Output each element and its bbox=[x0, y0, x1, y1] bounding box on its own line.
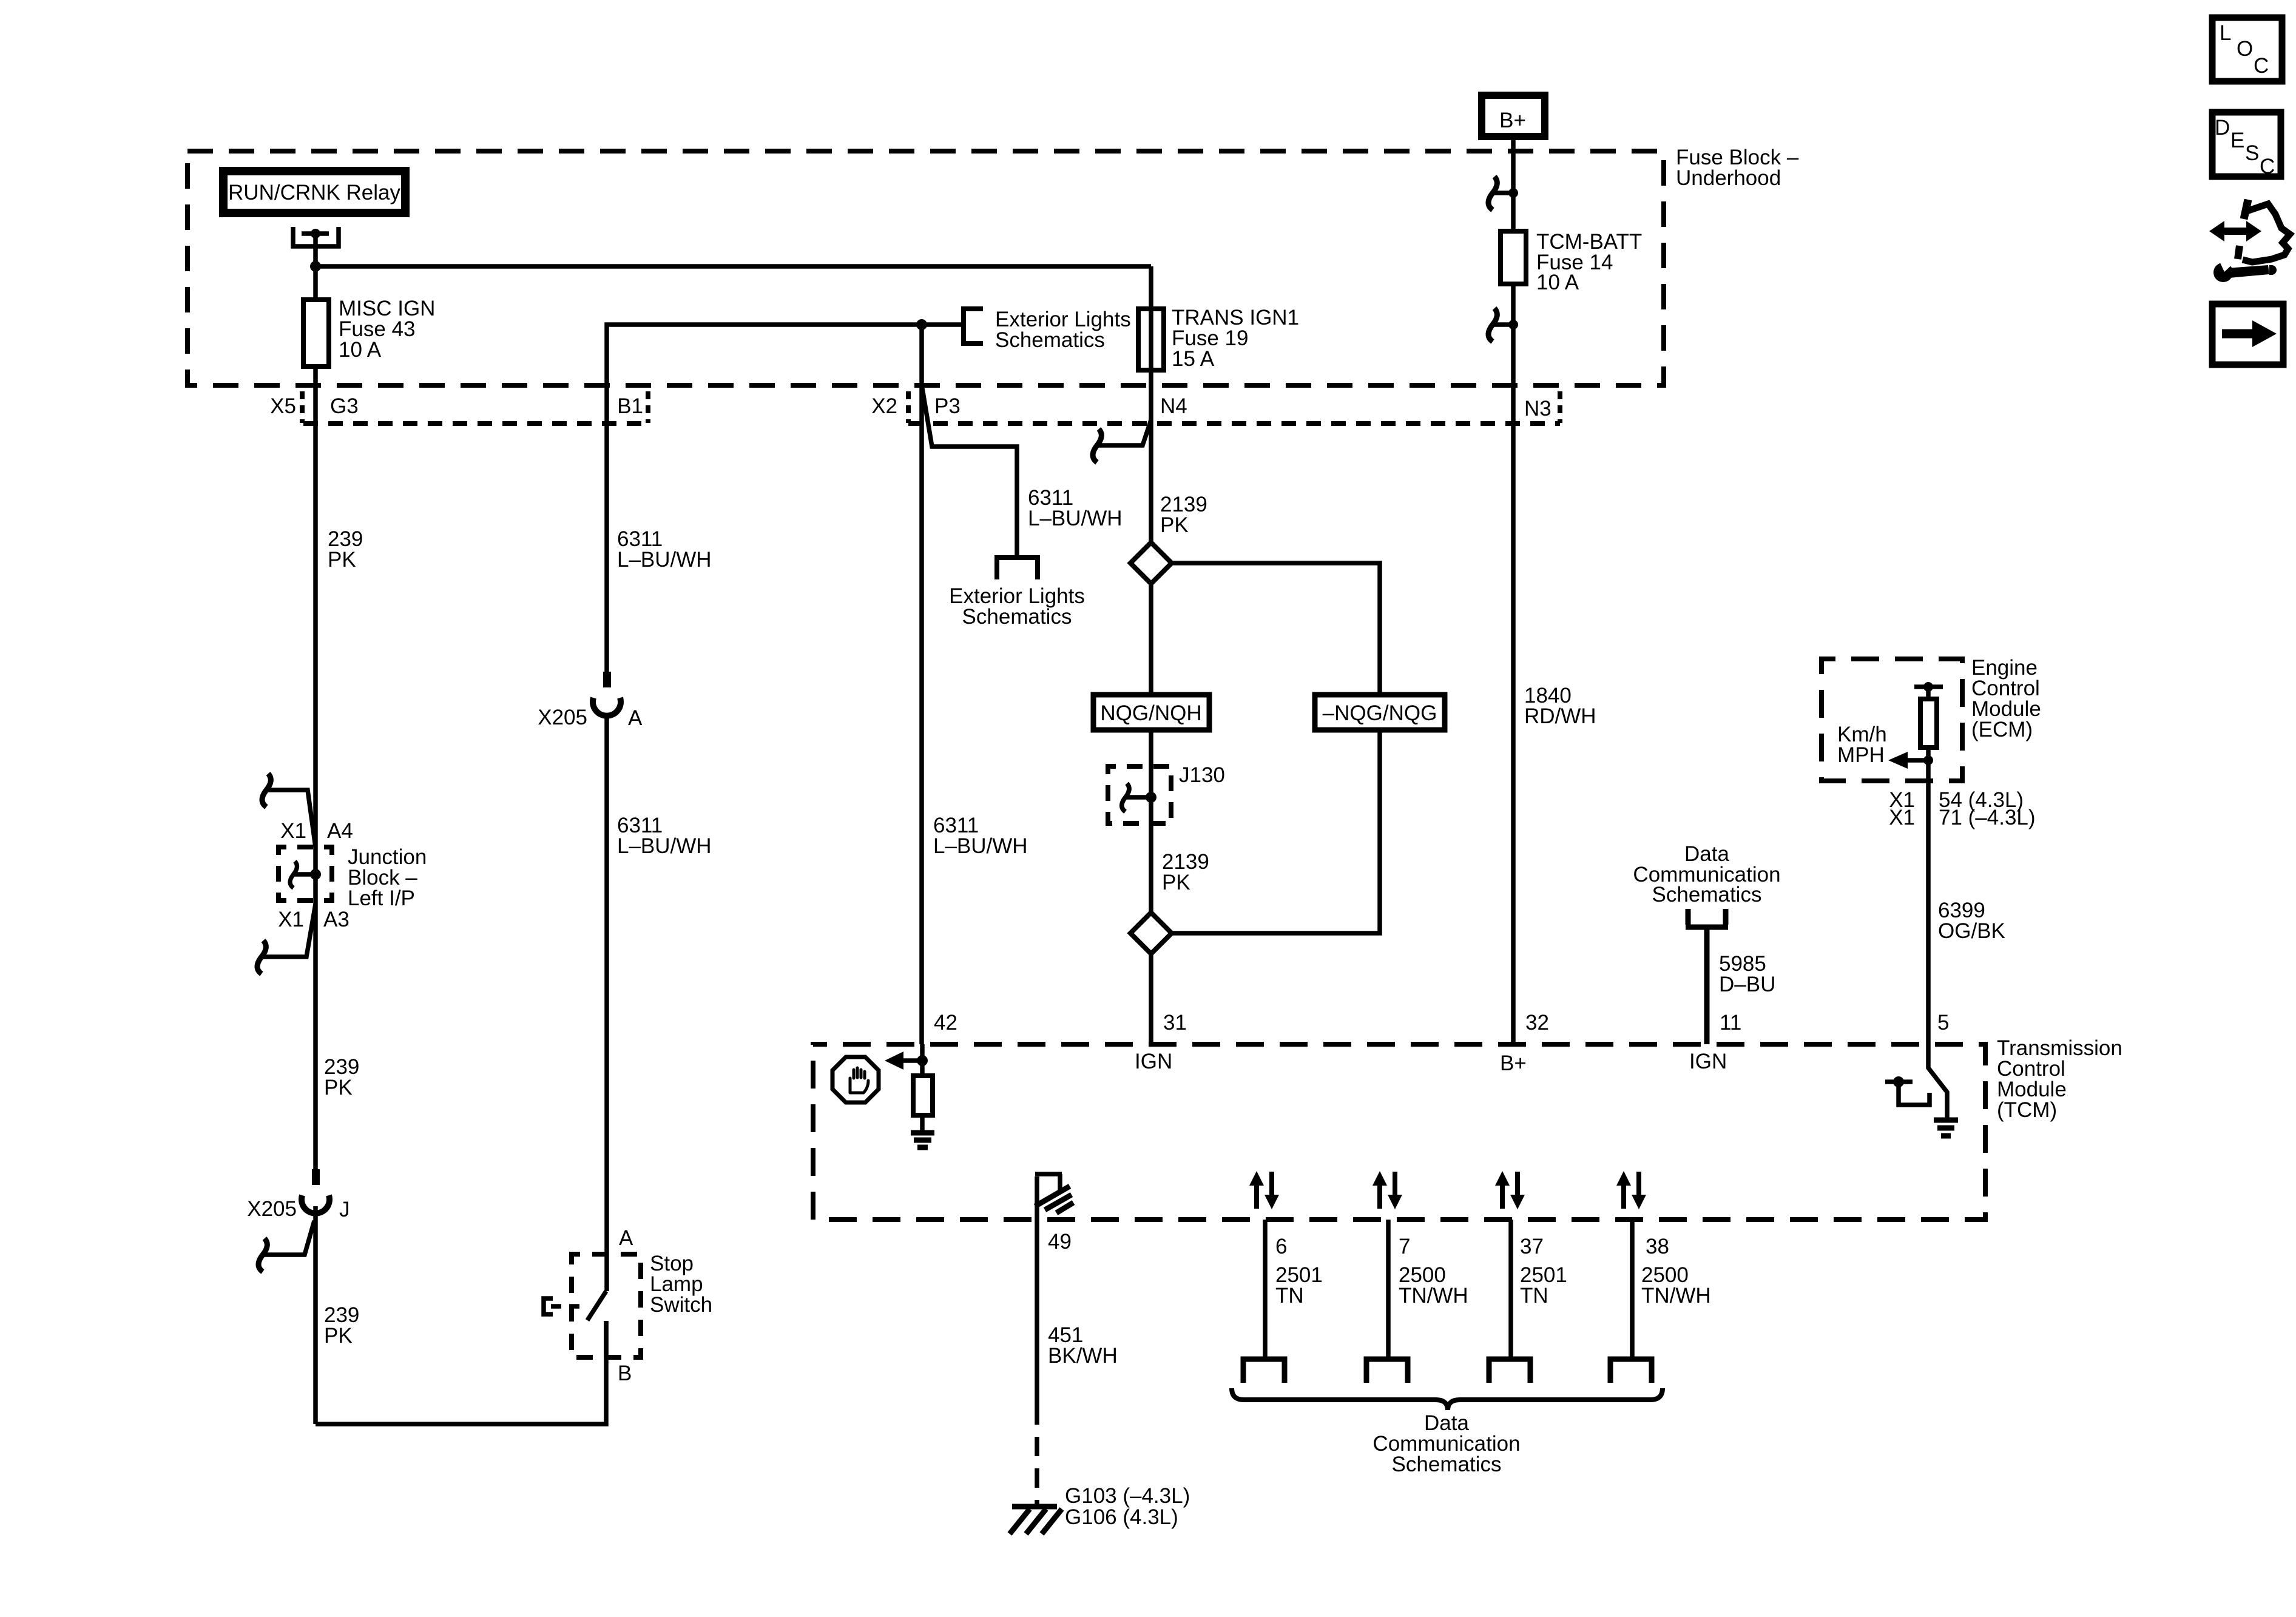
wire 6311 from splice down through P3 to TCM 42 bbox=[919, 325, 924, 1044]
wire to MISC IGN fuse bbox=[313, 266, 318, 300]
connector separator X2 bbox=[906, 391, 911, 423]
brace data communication bbox=[1232, 1388, 1663, 1410]
svg-text:NQG/NQH: NQG/NQH bbox=[1100, 701, 1201, 725]
wire 451 BK/WH dashed to ground bbox=[1035, 1425, 1039, 1507]
svg-text:42: 42 bbox=[934, 1011, 957, 1035]
break symbol A4 stub bbox=[262, 774, 271, 807]
svg-text:B1: B1 bbox=[617, 394, 643, 418]
wire relay output horizontal to TRANS IGN1 bbox=[316, 264, 1151, 269]
svg-text:IGN: IGN bbox=[1689, 1050, 1727, 1073]
junction block dashed box bbox=[279, 847, 332, 900]
fuse block underhood dashed box bbox=[187, 151, 1664, 385]
splice clip inside J130 bbox=[1125, 795, 1151, 800]
svg-text:B+: B+ bbox=[1499, 109, 1526, 132]
data link arrows pin 6 bbox=[1249, 1171, 1279, 1209]
stub at X205 J bbox=[262, 1221, 314, 1255]
wire B1 up and right to exterior lights tap bbox=[607, 325, 964, 424]
svg-text:P3: P3 bbox=[934, 394, 961, 418]
connector row X5/G3...B1 bottom dashed line bbox=[303, 421, 647, 426]
wire ECM internal down bbox=[1926, 748, 1931, 781]
svg-text:A4: A4 bbox=[327, 819, 353, 843]
svg-text:RD/WH: RD/WH bbox=[1524, 704, 1596, 728]
TCM internal switch at pin 5 bbox=[1928, 1044, 1947, 1118]
pedal linkage E bracket bbox=[544, 1298, 553, 1314]
ground G103/G106 bbox=[1012, 1504, 1057, 1510]
relay contact symbol bbox=[293, 227, 339, 246]
wire below X205 J bbox=[313, 1206, 318, 1424]
fuse MISC IGN Fuse 43 bbox=[303, 300, 329, 366]
svg-text:L: L bbox=[2220, 21, 2231, 45]
svg-text:BK/WH: BK/WH bbox=[1048, 1344, 1118, 1368]
svg-text:(ECM): (ECM) bbox=[1971, 718, 2033, 741]
svg-text:Schematics: Schematics bbox=[1392, 1453, 1502, 1476]
wire TRANS IGN1 fuse feed bbox=[1149, 266, 1153, 309]
svg-text:Schematics: Schematics bbox=[995, 328, 1105, 352]
svg-text:G3: G3 bbox=[330, 394, 359, 418]
wire bottom horizontal to stop lamp switch bbox=[316, 1321, 606, 1424]
node splice on 6311 feed bbox=[916, 319, 927, 330]
wire 2500 TN/WH pin 38 bbox=[1630, 1220, 1635, 1357]
node diamond splice upper bbox=[1130, 542, 1172, 584]
relay RUN/CRNK Relay label box bbox=[223, 171, 405, 213]
svg-text:X205: X205 bbox=[538, 706, 587, 729]
svg-text:N3: N3 bbox=[1524, 397, 1551, 420]
svg-text:38: 38 bbox=[1646, 1235, 1669, 1258]
splice J130 dashed box bbox=[1108, 766, 1171, 823]
svg-text:A3: A3 bbox=[323, 908, 349, 931]
inline connector X205 A bbox=[603, 672, 611, 687]
svg-text:B: B bbox=[618, 1362, 632, 1385]
svg-text:PK: PK bbox=[324, 1076, 353, 1099]
svg-text:–NQG/NQG: –NQG/NQG bbox=[1323, 701, 1437, 725]
svg-text:TN/WH: TN/WH bbox=[1641, 1284, 1711, 1308]
node diamond splice lower bbox=[1130, 913, 1172, 954]
svg-text:IGN: IGN bbox=[1135, 1050, 1172, 1073]
exterior lights schematic bracket lower bbox=[997, 558, 1038, 579]
option box -NQG/NQG bbox=[1315, 695, 1445, 730]
svg-text:MPH: MPH bbox=[1837, 743, 1885, 767]
svg-text:C: C bbox=[2260, 155, 2275, 178]
node arrow junction bbox=[917, 1055, 928, 1066]
svg-text:X1: X1 bbox=[278, 908, 304, 931]
svg-text:X2: X2 bbox=[871, 394, 897, 418]
svg-text:L–BU/WH: L–BU/WH bbox=[1028, 507, 1123, 530]
battery feed B+ box bbox=[1482, 95, 1545, 137]
terminal pin 6 bbox=[1243, 1359, 1285, 1383]
svg-text:E: E bbox=[2230, 129, 2244, 152]
switch B contact bbox=[604, 1321, 609, 1357]
svg-text:X1: X1 bbox=[1889, 806, 1915, 829]
wire TCM 49 internal chassis ground stub bbox=[1035, 1176, 1039, 1220]
wire B1 down to X205 A bbox=[604, 424, 609, 672]
wire X205 A to stop lamp switch bbox=[604, 715, 609, 1291]
connector separator X5 bbox=[300, 391, 305, 423]
svg-text:A: A bbox=[619, 1226, 633, 1250]
wire diamond to NQG/NQH bbox=[1149, 584, 1153, 695]
wire relay contact stem bbox=[313, 234, 318, 266]
wire 2139 from fuse down to diamond bbox=[1149, 370, 1153, 542]
arrow to hand symbol bbox=[902, 1058, 922, 1063]
icon hand with wrench bbox=[2223, 228, 2248, 235]
terminal pin 37 bbox=[1489, 1359, 1530, 1383]
svg-text:D–BU: D–BU bbox=[1719, 973, 1775, 996]
svg-text:15 A: 15 A bbox=[1172, 347, 1215, 371]
svg-text:71 (–4.3L): 71 (–4.3L) bbox=[1939, 806, 2036, 829]
svg-text:Left I/P: Left I/P bbox=[348, 886, 415, 910]
svg-text:10 A: 10 A bbox=[1536, 271, 1579, 294]
wire 2501 TN pin 6 bbox=[1263, 1220, 1268, 1357]
svg-text:X1: X1 bbox=[280, 819, 306, 843]
fuse TRANS IGN1 Fuse 19 bbox=[1138, 309, 1164, 370]
icon DESC box bbox=[2212, 112, 2281, 177]
data link arrows pin 37 bbox=[1495, 1171, 1525, 1209]
option box NQG/NQH bbox=[1093, 695, 1209, 730]
wire resistor to ground bbox=[920, 1115, 925, 1133]
data link arrows pin 7 bbox=[1373, 1171, 1402, 1209]
break symbol A3 stub bbox=[257, 940, 266, 974]
wire right branch from diamond bbox=[1172, 563, 1380, 695]
svg-text:31: 31 bbox=[1163, 1011, 1187, 1035]
junction block connector A3 stub bbox=[261, 904, 316, 957]
svg-text:G103 (–4.3L): G103 (–4.3L) bbox=[1065, 1484, 1190, 1508]
svg-text:32: 32 bbox=[1525, 1011, 1549, 1035]
svg-text:PK: PK bbox=[328, 548, 356, 572]
hand warning octagon bbox=[832, 1057, 879, 1102]
clip connector on B+ wire upper bbox=[1493, 191, 1513, 195]
svg-text:PK: PK bbox=[324, 1324, 353, 1348]
svg-text:B+: B+ bbox=[1500, 1052, 1527, 1075]
icon arrow box bbox=[2212, 304, 2283, 365]
hand glyph bbox=[850, 1068, 868, 1093]
ECM internal node bar bbox=[1914, 684, 1943, 689]
svg-text:7: 7 bbox=[1399, 1235, 1410, 1258]
inline connector X205 J bbox=[312, 1169, 320, 1185]
svg-text:J: J bbox=[339, 1198, 350, 1221]
svg-text:L–BU/WH: L–BU/WH bbox=[933, 834, 1028, 858]
svg-text:Schematics: Schematics bbox=[962, 605, 1072, 629]
arrow Km/h MPH output bbox=[1923, 755, 1933, 765]
svg-text:O: O bbox=[2237, 37, 2253, 61]
switch stop lamp dashed box bbox=[572, 1254, 641, 1357]
resistor TCM internal bbox=[913, 1076, 933, 1115]
wire N4 stub with break bbox=[1096, 420, 1151, 445]
svg-text:RUN/CRNK Relay: RUN/CRNK Relay bbox=[228, 181, 400, 204]
ground TCM internal bbox=[911, 1133, 934, 1147]
resistor ECM internal bbox=[1926, 689, 1931, 699]
junction block connector A4 stub bbox=[266, 790, 316, 847]
wire TCM-BATT fuse to TCM 32 bbox=[1511, 284, 1516, 1044]
wire NQG/NQH to J130 bbox=[1149, 730, 1153, 913]
chassis ground TCM internal icon bbox=[1035, 1174, 1062, 1190]
connector separator N3 bbox=[1558, 391, 1562, 423]
svg-text:L–BU/WH: L–BU/WH bbox=[617, 834, 712, 858]
connector row X2/P3...N4...N3 bottom dashed line bbox=[908, 421, 1560, 426]
wire 6399 ECM to TCM 5 bbox=[1926, 781, 1931, 1044]
switch blade bbox=[587, 1291, 606, 1320]
switch contact L bbox=[1893, 1076, 1904, 1087]
svg-text:X205: X205 bbox=[247, 1197, 297, 1221]
svg-text:L–BU/WH: L–BU/WH bbox=[617, 548, 712, 572]
break symbol at N4 stub bbox=[1093, 429, 1101, 462]
svg-text:OG/BK: OG/BK bbox=[1938, 919, 2005, 943]
wire diamond to TCM 31 bbox=[1149, 954, 1153, 1044]
node junction below relay bbox=[310, 261, 321, 272]
fuse TCM-BATT Fuse 14 bbox=[1501, 231, 1526, 284]
svg-text:D: D bbox=[2215, 116, 2230, 140]
terminal pin 7 bbox=[1366, 1359, 1408, 1383]
svg-text:5: 5 bbox=[1937, 1011, 1949, 1035]
svg-text:6: 6 bbox=[1275, 1235, 1287, 1258]
connector separator B1 bbox=[646, 391, 650, 423]
wire 451 BK/WH solid bbox=[1035, 1220, 1039, 1425]
ground TCM pin5 internal bbox=[1934, 1120, 1958, 1136]
svg-text:S: S bbox=[2245, 141, 2259, 165]
wire 2500 TN/WH pin 7 bbox=[1386, 1220, 1391, 1357]
wire 2501 TN pin 37 bbox=[1508, 1220, 1513, 1357]
svg-text:(TCM): (TCM) bbox=[1997, 1098, 2057, 1122]
wire MISC IGN fuse to connector G3 bbox=[313, 366, 318, 1169]
svg-text:49: 49 bbox=[1048, 1230, 1072, 1254]
wire 5985 to TCM 11 bbox=[1704, 927, 1710, 1044]
wire second 6311 stub from P3 to exterior lights bbox=[922, 388, 1017, 558]
svg-text:Switch: Switch bbox=[650, 1293, 712, 1317]
wire TCM 42 internal bbox=[920, 1044, 925, 1076]
module ECM dashed box bbox=[1822, 659, 1962, 781]
svg-text:TN/WH: TN/WH bbox=[1399, 1284, 1468, 1308]
module TCM dashed box bbox=[813, 1044, 1985, 1220]
break symbol X205 J stub bbox=[258, 1238, 267, 1272]
exterior lights schematic bracket bbox=[964, 309, 983, 343]
data link arrows pin 38 bbox=[1616, 1171, 1646, 1209]
data comm schematic bracket bbox=[1686, 909, 1728, 927]
svg-text:PK: PK bbox=[1160, 513, 1189, 537]
svg-text:10 A: 10 A bbox=[339, 338, 382, 362]
svg-text:C: C bbox=[2254, 54, 2269, 78]
svg-text:N4: N4 bbox=[1160, 394, 1187, 418]
terminal pin 38 bbox=[1610, 1359, 1652, 1383]
svg-text:G106 (4.3L): G106 (4.3L) bbox=[1065, 1505, 1178, 1529]
wire B+ to TCM-BATT fuse bbox=[1511, 137, 1516, 231]
splice clip inside junction block bbox=[293, 872, 316, 877]
svg-text:A: A bbox=[628, 706, 643, 730]
svg-text:37: 37 bbox=[1520, 1235, 1544, 1258]
svg-text:11: 11 bbox=[1720, 1011, 1741, 1035]
svg-text:J130: J130 bbox=[1179, 763, 1225, 787]
svg-text:Schematics: Schematics bbox=[1652, 883, 1762, 906]
clip connector on B+ wire lower bbox=[1493, 322, 1513, 327]
svg-text:TN: TN bbox=[1520, 1284, 1548, 1308]
icon LOC box bbox=[2212, 18, 2282, 81]
svg-text:TN: TN bbox=[1275, 1284, 1304, 1308]
svg-text:PK: PK bbox=[1162, 871, 1190, 894]
svg-text:Underhood: Underhood bbox=[1676, 166, 1781, 190]
svg-text:X5: X5 bbox=[270, 394, 296, 418]
wire right branch lower bbox=[1172, 730, 1380, 933]
